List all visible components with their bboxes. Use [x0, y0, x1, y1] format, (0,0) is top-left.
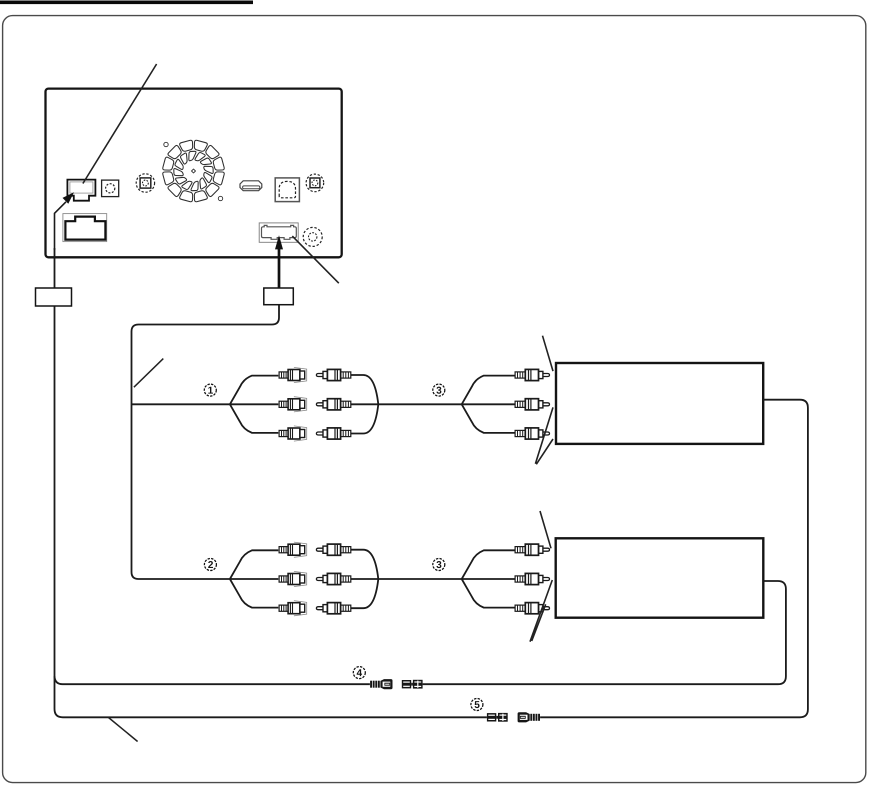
RCA jack icon right: [306, 174, 324, 192]
wires from male plugs to junction: [351, 375, 462, 434]
male RCA plug top (facing left): [316, 544, 350, 555]
amp 1 input leaders (bottom V): [535, 407, 553, 464]
title underline: [0, 1, 253, 5]
male RCA plug middle (facing right, to amplifier): [515, 573, 549, 584]
arrow into antenna connector: [55, 192, 75, 250]
wire 4 male spade connector: [402, 680, 423, 689]
wires from male plugs to junction: [351, 550, 462, 609]
USB type-B port: [275, 178, 299, 202]
female RCA plug bottom: [279, 426, 307, 441]
amp 2 remote wire (to wire 4): [423, 581, 786, 684]
wire 5 male spade connector: [487, 713, 508, 722]
female RCA plug middle: [279, 571, 307, 586]
wire 4 female spade connector: [370, 679, 392, 689]
branch of lead to wire 4: [55, 676, 370, 684]
male RCA plug middle (facing left): [316, 573, 350, 584]
wire split (amplifier side): [462, 376, 515, 433]
amp 1 input leader (top): [543, 336, 554, 371]
round AV jack icon (dashed): [303, 227, 322, 246]
wire split (amplifier side): [462, 550, 515, 607]
tap to group 1: [132, 403, 230, 405]
antenna connector (left, with tab): [67, 180, 95, 201]
amplifier 2 box: [556, 538, 764, 617]
female RCA plug middle: [279, 397, 307, 412]
male RCA plug bottom (facing right, to amplifier): [515, 603, 549, 614]
female RCA plug bottom: [279, 601, 307, 616]
wire 5 female spade connector: [518, 712, 540, 722]
leader line from USB/AV connector (diagonal): [292, 236, 339, 283]
label circled 1: [204, 384, 216, 396]
male RCA plug bottom (facing left): [316, 428, 350, 439]
label circled 3: [433, 559, 445, 571]
arrow into USB/AV connector: [275, 235, 283, 288]
antenna lead wire (down left side, to wire 5): [55, 248, 487, 717]
leader line to antenna connector (from top): [83, 64, 157, 184]
amp 2 input leaders (bottom V): [530, 580, 552, 642]
female RCA plug top: [279, 542, 307, 557]
label circled 3: [433, 384, 445, 396]
amp 1 remote wire (to wire 5): [540, 400, 808, 718]
fan screw hole top-left: [164, 142, 168, 146]
label circled 4: [353, 667, 365, 679]
head unit rear panel: [46, 89, 342, 258]
fan screw hole bottom-right: [218, 196, 222, 200]
ferrite core (left): [36, 288, 72, 306]
male RCA plug middle (facing left): [316, 399, 350, 410]
female RCA plug top: [279, 367, 307, 382]
male RCA plug bottom (facing right, to amplifier): [515, 428, 549, 439]
amp 2 input leader (top): [540, 511, 551, 548]
AV cable from ferrite to splits: [132, 305, 280, 579]
label circled 2: [204, 559, 216, 571]
male RCA plug top (facing left): [316, 369, 350, 380]
male RCA plug top (facing right, to amplifier): [515, 544, 549, 555]
HDMI port: [240, 181, 262, 191]
cooling fan grille: [163, 140, 224, 201]
leader line to antenna lead (bottom left): [109, 718, 138, 742]
male RCA plug bottom (facing left): [316, 603, 350, 614]
wire split (head unit side): [230, 376, 278, 433]
ferrite core (right): [264, 288, 294, 305]
label circled 5: [471, 699, 483, 711]
wire split (head unit side): [230, 550, 278, 607]
USB/AV input connector (bottom): [259, 223, 298, 242]
amplifier 1 box: [556, 363, 763, 444]
male RCA plug middle (facing right, to amplifier): [515, 399, 549, 410]
RCA jack icon left (dashed circle, square, inner circle): [136, 174, 154, 192]
main wiring harness connector: [63, 214, 107, 242]
small square port with dashed circle: [102, 180, 119, 197]
male RCA plug top (facing right, to amplifier): [515, 369, 549, 380]
leader line to AV cable: [134, 359, 163, 388]
